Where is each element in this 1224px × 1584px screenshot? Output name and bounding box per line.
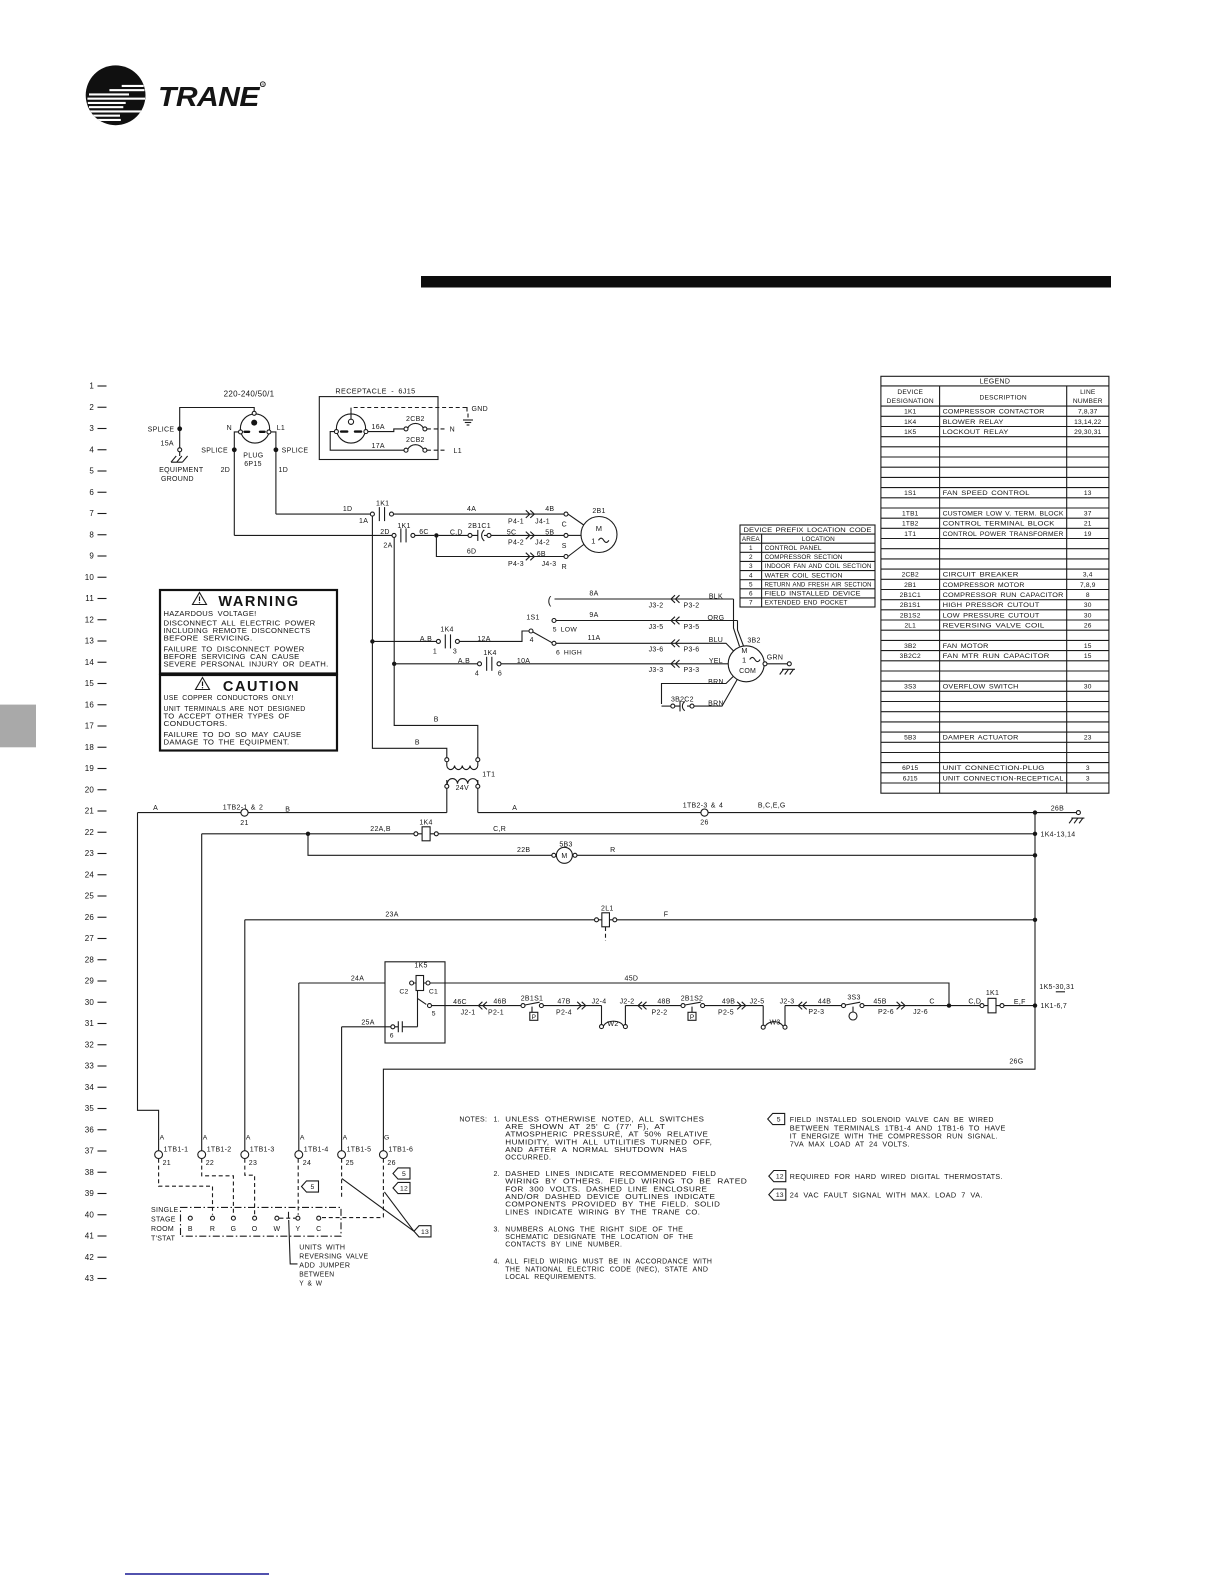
svg-text:J3-2: J3-2	[649, 602, 664, 609]
svg-text:NUMBERS ALONG THE RIGHT SIDE O: NUMBERS ALONG THE RIGHT SIDE OF THE	[505, 1226, 683, 1233]
svg-text:23: 23	[249, 1160, 257, 1167]
svg-text:OCCURRED.: OCCURRED.	[505, 1155, 551, 1162]
wire J2-2	[625, 1005, 681, 1007]
svg-text:3: 3	[453, 648, 457, 655]
svg-text:2D: 2D	[221, 467, 231, 474]
svg-text:C,D: C,D	[450, 530, 463, 537]
equipment ground terminal	[178, 448, 182, 452]
left rail line21 down	[138, 813, 159, 1151]
svg-text:TO ACCEPT OTHER TYPES OF: TO ACCEPT OTHER TYPES OF	[164, 714, 290, 721]
svg-text:1TB1-1: 1TB1-1	[164, 1147, 189, 1154]
terminal S	[564, 533, 568, 537]
wire 45B	[864, 1005, 980, 1007]
svg-text:GRN: GRN	[767, 655, 783, 662]
svg-text:5 LOW: 5 LOW	[553, 626, 578, 633]
svg-text:1.: 1.	[493, 1116, 499, 1123]
relay coil 1K5	[410, 981, 414, 985]
svg-text:ARE SHOWN AT 25' C (77' F), AT: ARE SHOWN AT 25' C (77' F), AT	[505, 1124, 665, 1131]
svg-text:6: 6	[498, 671, 502, 678]
terminal 1TB1-1	[155, 1151, 163, 1159]
svg-text:30: 30	[1084, 602, 1092, 609]
svg-text:A: A	[160, 1135, 165, 1142]
svg-text:AREA: AREA	[742, 536, 760, 543]
svg-text:13: 13	[85, 637, 95, 646]
svg-text:LOCATION: LOCATION	[802, 536, 835, 543]
svg-text:1TB1-3: 1TB1-3	[250, 1147, 275, 1154]
svg-text:UNIT TERMINALS ARE NOT DESIGNE: UNIT TERMINALS ARE NOT DESIGNED	[164, 706, 306, 713]
svg-text:FAN MTR RUN CAPACITOR: FAN MTR RUN CAPACITOR	[943, 653, 1050, 660]
svg-text:7: 7	[749, 600, 753, 607]
wire line21 left	[138, 812, 242, 814]
svg-text:3S3: 3S3	[847, 994, 860, 1001]
note flag 13	[769, 1189, 786, 1200]
svg-text:P2-3: P2-3	[808, 1009, 824, 1016]
svg-text:COM: COM	[739, 668, 756, 675]
svg-text:1K4: 1K4	[419, 820, 432, 827]
line number ruler 1-43	[85, 382, 107, 1284]
svg-text:J2-6: J2-6	[913, 1009, 928, 1016]
svg-text:23: 23	[85, 849, 95, 858]
svg-text:ORG: ORG	[707, 615, 724, 622]
svg-text:B: B	[434, 717, 439, 724]
connector J2-2/P2-2	[638, 1002, 642, 1010]
wire 2D line8	[234, 534, 392, 536]
dashed lead 1TB1-5	[341, 1159, 343, 1198]
svg-text:UNLESS OTHERWISE NOTED, ALL SW: UNLESS OTHERWISE NOTED, ALL SWITCHES	[505, 1116, 704, 1123]
svg-text:1K5-30,31: 1K5-30,31	[1039, 984, 1074, 991]
svg-text:1TB1-2: 1TB1-2	[207, 1147, 232, 1154]
svg-text:J2-3: J2-3	[780, 998, 795, 1005]
svg-text:16: 16	[85, 700, 95, 709]
svg-text:6 HIGH: 6 HIGH	[556, 649, 582, 656]
legend table	[881, 376, 1109, 793]
svg-text:COMPRESSOR MOTOR: COMPRESSOR MOTOR	[943, 582, 1025, 589]
svg-text:1K4: 1K4	[483, 650, 496, 657]
svg-text:6P15: 6P15	[902, 765, 918, 772]
wire BRN lower	[694, 679, 737, 706]
svg-text:15: 15	[1084, 653, 1092, 660]
svg-text:5: 5	[432, 1011, 436, 1018]
svg-text:ATMOSPHERIC PRESSURE, AT 50% R: ATMOSPHERIC PRESSURE, AT 50% RELATIVE	[505, 1132, 708, 1139]
terminal R	[564, 555, 568, 559]
svg-text:M: M	[561, 853, 567, 860]
svg-text:2B1C1: 2B1C1	[468, 523, 491, 530]
svg-text:P4-3: P4-3	[508, 561, 524, 568]
TRANE wordmark	[158, 81, 260, 112]
svg-text:BRN: BRN	[708, 679, 724, 686]
svg-text:6J15: 6J15	[903, 775, 918, 782]
svg-text:1K1: 1K1	[397, 523, 410, 530]
svg-text:BETWEEN: BETWEEN	[299, 1271, 334, 1278]
svg-text:4.: 4.	[493, 1259, 499, 1266]
t-stat terminal W	[275, 1216, 279, 1220]
svg-text:1K1: 1K1	[376, 501, 389, 508]
svg-text:8: 8	[89, 530, 94, 539]
right rail wire	[383, 813, 1035, 1151]
1K5 reset contact	[391, 1025, 395, 1029]
svg-text:13: 13	[421, 1229, 429, 1236]
svg-text:P: P	[690, 1014, 694, 1021]
svg-text:1TB1-6: 1TB1-6	[388, 1147, 413, 1154]
svg-text:27: 27	[85, 934, 95, 943]
svg-text:13: 13	[1084, 490, 1092, 497]
svg-text:2CB2: 2CB2	[406, 416, 425, 423]
svg-text:1K4: 1K4	[904, 419, 916, 426]
svg-text:J2-4: J2-4	[592, 998, 607, 1005]
svg-text:SINGLE: SINGLE	[151, 1207, 179, 1214]
svg-text:21: 21	[163, 1160, 171, 1167]
svg-text:B: B	[188, 1226, 193, 1233]
svg-text:5B: 5B	[545, 530, 554, 537]
svg-text:5B3: 5B3	[904, 735, 916, 742]
svg-text:J4-2: J4-2	[535, 540, 550, 547]
svg-text:CUSTOMER LOW V. TERM. BLOCK: CUSTOMER LOW V. TERM. BLOCK	[943, 510, 1064, 517]
flag 12 near 1TB1-6	[393, 1182, 410, 1193]
svg-text:2B1: 2B1	[592, 508, 605, 515]
svg-text:9: 9	[89, 552, 94, 561]
svg-text:J3-5: J3-5	[649, 624, 664, 631]
svg-text:20: 20	[85, 785, 95, 794]
svg-text:HUMIDITY, WITH ALL UTILITIES T: HUMIDITY, WITH ALL UTILITIES TURNED OFF,	[505, 1139, 712, 1146]
svg-text:CAUTION: CAUTION	[223, 679, 300, 695]
svg-text:P2-5: P2-5	[718, 1009, 734, 1016]
svg-text:24: 24	[303, 1160, 311, 1167]
svg-text:DEVICE: DEVICE	[897, 389, 923, 396]
svg-text:7VA MAX LOAD AT 24 VOLTS.: 7VA MAX LOAD AT 24 VOLTS.	[790, 1142, 910, 1149]
svg-text:A: A	[246, 1135, 251, 1142]
svg-text:Y: Y	[295, 1226, 300, 1233]
svg-text:1D: 1D	[279, 467, 289, 474]
svg-text:43: 43	[85, 1274, 95, 1283]
TRANE logo	[86, 65, 146, 125]
note flag 5	[768, 1113, 785, 1124]
svg-text:2B1S1: 2B1S1	[521, 996, 544, 1003]
relay coil 1K1	[980, 1004, 984, 1008]
svg-text:B,C,E,G: B,C,E,G	[758, 803, 786, 810]
svg-text:SEVERE PERSONAL INJURY OR DEAT: SEVERE PERSONAL INJURY OR DEATH.	[164, 662, 329, 669]
svg-text:CONTACTS BY LINE NUMBER.: CONTACTS BY LINE NUMBER.	[505, 1242, 622, 1249]
svg-text:INCLUDING REMOTE DISCONNECTS: INCLUDING REMOTE DISCONNECTS	[164, 628, 311, 635]
svg-text:30: 30	[1084, 612, 1092, 619]
svg-text:CIRCUIT BREAKER: CIRCUIT BREAKER	[943, 572, 1019, 579]
terminal 1TB2-1&2	[241, 809, 248, 816]
wire L-top	[180, 408, 255, 429]
svg-text:2.: 2.	[493, 1171, 499, 1178]
1S1 pivot and blade	[529, 629, 533, 633]
svg-text:BRN: BRN	[708, 700, 724, 707]
wire 8A BLK	[555, 598, 734, 600]
svg-text:41: 41	[85, 1232, 95, 1241]
svg-text:UNITS WITH: UNITS WITH	[299, 1244, 345, 1251]
svg-text:W3: W3	[769, 1019, 780, 1026]
svg-text:3B2: 3B2	[747, 638, 760, 645]
svg-text:7: 7	[89, 509, 94, 518]
connector J2-1/P2-1	[478, 1002, 482, 1010]
svg-text:16A: 16A	[372, 424, 385, 431]
svg-text:26: 26	[1084, 623, 1092, 630]
svg-text:1TB1-5: 1TB1-5	[347, 1147, 372, 1154]
terminal C	[564, 512, 568, 516]
svg-text:6: 6	[390, 1032, 394, 1039]
svg-text:L1: L1	[277, 425, 285, 432]
svg-text:42: 42	[85, 1253, 95, 1262]
svg-text:C: C	[316, 1226, 321, 1233]
breaker 2CB2 upper	[404, 427, 408, 431]
wire 1D line7	[276, 513, 371, 515]
t-stat terminal B	[188, 1216, 192, 1220]
svg-text:ROOM: ROOM	[151, 1226, 174, 1233]
wire 5C	[491, 534, 564, 536]
svg-text:4: 4	[89, 445, 94, 454]
svg-text:45D: 45D	[625, 975, 639, 982]
svg-text:3: 3	[749, 563, 753, 570]
svg-text:FAILURE TO DISCONNECT POWER: FAILURE TO DISCONNECT POWER	[164, 647, 305, 654]
svg-text:44B: 44B	[818, 998, 831, 1005]
svg-text:SPLICE: SPLICE	[201, 448, 228, 455]
plug 6P15	[240, 414, 269, 443]
svg-text:30: 30	[85, 998, 95, 1007]
footer blue line	[125, 1573, 269, 1575]
svg-text:P4-1: P4-1	[508, 518, 524, 525]
t-stat terminal R	[211, 1216, 215, 1220]
svg-text:2B1S1: 2B1S1	[900, 602, 921, 609]
svg-text:F: F	[664, 912, 669, 919]
contact 1K1 line8	[392, 533, 396, 537]
terminal 1TB1-3	[241, 1151, 249, 1159]
t-stat terminal O	[253, 1216, 257, 1220]
svg-text:12: 12	[400, 1186, 408, 1193]
svg-text:P3-6: P3-6	[684, 646, 700, 653]
contact 1K4 line14	[478, 662, 482, 666]
svg-text:1A: 1A	[359, 518, 368, 525]
svg-text:R: R	[261, 83, 264, 87]
svg-text:FAILURE TO DO SO MAY CAUSE: FAILURE TO DO SO MAY CAUSE	[164, 732, 302, 739]
svg-text:N: N	[227, 425, 232, 432]
svg-text:P3-3: P3-3	[684, 667, 700, 674]
svg-text:CONDUCTORS.: CONDUCTORS.	[164, 721, 228, 728]
svg-text:FAN SPEED CONTROL: FAN SPEED CONTROL	[943, 490, 1030, 497]
svg-text:B: B	[285, 806, 290, 813]
svg-text:COMPRESSOR SECTION: COMPRESSOR SECTION	[765, 554, 843, 561]
svg-text:RETURN AND FRESH AIR SECTION: RETURN AND FRESH AIR SECTION	[765, 581, 872, 588]
svg-text:OVERFLOW SWITCH: OVERFLOW SWITCH	[943, 684, 1019, 691]
svg-text:DISCONNECT ALL ELECTRIC POWER: DISCONNECT ALL ELECTRIC POWER	[164, 620, 316, 627]
svg-text:C: C	[929, 998, 934, 1005]
svg-text:17A: 17A	[372, 443, 385, 450]
svg-text:(: (	[548, 595, 552, 607]
svg-text:10A: 10A	[517, 658, 530, 665]
splice dot left	[177, 426, 182, 431]
svg-text:J3-3: J3-3	[649, 667, 664, 674]
wire 46C	[432, 1005, 522, 1007]
dashed lead 1TB1-3 to O	[245, 1159, 255, 1215]
svg-text:2B1: 2B1	[904, 582, 916, 589]
thermostat box	[181, 1207, 342, 1236]
svg-text:3,4: 3,4	[1083, 572, 1093, 579]
svg-text:5B3: 5B3	[559, 841, 572, 848]
svg-text:24: 24	[85, 870, 95, 879]
wire line26 23A	[245, 919, 595, 921]
wire 16A	[368, 429, 404, 432]
svg-text:FOR 300 VOLTS. DASHED LINE ENC: FOR 300 VOLTS. DASHED LINE ENCLOSURE	[505, 1186, 707, 1193]
svg-text:REVERSING VALVE: REVERSING VALVE	[299, 1253, 368, 1260]
svg-text:G: G	[231, 1226, 237, 1233]
svg-text:1TB2-3 & 4: 1TB2-3 & 4	[683, 803, 723, 810]
svg-text:37: 37	[1084, 510, 1092, 517]
svg-text:HAZARDOUS VOLTAGE!: HAZARDOUS VOLTAGE!	[164, 611, 257, 618]
terminal 1TB2-3&4	[701, 809, 708, 816]
svg-text:M: M	[596, 524, 603, 533]
svg-text:5: 5	[402, 1171, 406, 1178]
svg-text:5: 5	[777, 1117, 781, 1124]
svg-text:LOCAL REQUIREMENTS.: LOCAL REQUIREMENTS.	[505, 1274, 596, 1281]
svg-text:12: 12	[776, 1174, 784, 1181]
svg-text:1: 1	[433, 648, 437, 655]
svg-text:STAGE: STAGE	[151, 1216, 176, 1223]
svg-text:6C: 6C	[419, 529, 429, 536]
svg-text:34: 34	[85, 1083, 95, 1092]
svg-text:2L1: 2L1	[601, 906, 614, 913]
svg-text:49B: 49B	[722, 999, 735, 1006]
svg-text:FIELD INSTALLED SOLENOID VALVE: FIELD INSTALLED SOLENOID VALVE CAN BE WI…	[790, 1117, 994, 1124]
svg-text:39: 39	[85, 1189, 95, 1198]
svg-text:YEL: YEL	[709, 658, 723, 665]
flag 5 near 1TB1-6	[393, 1168, 410, 1179]
svg-text:40: 40	[85, 1210, 95, 1219]
svg-text:S: S	[562, 543, 567, 550]
svg-text:CONTROL PANEL: CONTROL PANEL	[765, 545, 822, 552]
svg-text:LOW PRESSURE CUTOUT: LOW PRESSURE CUTOUT	[943, 612, 1040, 619]
svg-text:15: 15	[85, 679, 95, 688]
svg-text:2B1S2: 2B1S2	[681, 996, 704, 1003]
svg-text:COMPRESSOR RUN CAPACITOR: COMPRESSOR RUN CAPACITOR	[943, 592, 1064, 599]
svg-text:24A: 24A	[351, 976, 364, 983]
svg-text:INDOOR FAN AND COIL SECTION: INDOOR FAN AND COIL SECTION	[765, 563, 872, 570]
svg-text:P2-2: P2-2	[652, 1009, 668, 1016]
1T1 secondary drops	[446, 788, 448, 812]
wire 15A	[179, 431, 181, 448]
svg-text:12: 12	[85, 615, 95, 624]
svg-text:25: 25	[85, 892, 95, 901]
svg-text:26: 26	[387, 1160, 395, 1167]
pressure switch 2B1S2	[681, 1004, 685, 1008]
svg-text:ADD JUMPER: ADD JUMPER	[299, 1262, 350, 1269]
equipment ground symbol	[179, 452, 181, 456]
wire 1D from plug L1	[271, 432, 276, 448]
svg-text:13,14,22: 13,14,22	[1074, 419, 1101, 426]
dashed lead 1TB1-4 to Y	[297, 1159, 299, 1215]
svg-text:WIRING BY OTHERS. FIELD WIRING: WIRING BY OTHERS. FIELD WIRING TO BE RAT…	[505, 1179, 747, 1186]
rail 1TB1-5	[341, 1027, 343, 1151]
svg-text:14: 14	[85, 658, 95, 667]
svg-text:26G: 26G	[1009, 1059, 1023, 1066]
svg-text:P2-6: P2-6	[878, 1009, 894, 1016]
svg-text:15A: 15A	[161, 440, 174, 447]
svg-text:LEGEND: LEGEND	[980, 378, 1011, 385]
svg-text:AND AFTER A NORMAL SHUTDOWN HA: AND AFTER A NORMAL SHUTDOWN HAS	[505, 1147, 687, 1154]
svg-text:2: 2	[89, 403, 94, 412]
svg-text:C1: C1	[429, 989, 438, 996]
svg-text:11: 11	[85, 594, 94, 603]
flag 5 near 1TB1-4	[302, 1181, 319, 1192]
svg-text:SPLICE: SPLICE	[282, 448, 309, 455]
1K5 enclosure box	[385, 962, 445, 1043]
svg-text:UNIT CONNECTION-RECEPTICAL: UNIT CONNECTION-RECEPTICAL	[943, 775, 1064, 782]
svg-text:EQUIPMENT: EQUIPMENT	[159, 467, 204, 474]
svg-text:J3-6: J3-6	[649, 646, 664, 653]
svg-text:2CB2: 2CB2	[902, 572, 919, 579]
svg-text:1K1: 1K1	[986, 990, 999, 997]
breaker 2CB2 lower	[404, 448, 408, 452]
svg-text:P3-2: P3-2	[684, 602, 700, 609]
svg-text:P2-4: P2-4	[556, 1009, 572, 1016]
damper actuator 5B3	[552, 853, 556, 857]
svg-text:4: 4	[475, 671, 479, 678]
wire 6C	[415, 534, 434, 536]
svg-text:6: 6	[89, 488, 94, 497]
wire B to 1T1 left	[372, 516, 446, 758]
terminal 1TB1-6	[380, 1151, 388, 1159]
wire 47B	[543, 1005, 601, 1007]
wire BRN upper	[662, 676, 734, 704]
svg-text:C: C	[562, 522, 567, 529]
svg-text:R: R	[610, 847, 615, 854]
svg-text:3B2C2: 3B2C2	[900, 653, 921, 660]
svg-text:ALL FIELD WIRING MUST BE IN AC: ALL FIELD WIRING MUST BE IN ACCORDANCE W…	[505, 1259, 712, 1266]
connector P2-5/J2-5	[737, 1002, 741, 1010]
jumper note leader	[289, 1220, 298, 1264]
svg-text:Y & W: Y & W	[299, 1280, 322, 1287]
svg-text:2A: 2A	[383, 543, 392, 550]
svg-text:19: 19	[85, 764, 95, 773]
svg-text:13: 13	[776, 1192, 784, 1199]
svg-text:CONTROL POWER TRANSFORMER: CONTROL POWER TRANSFORMER	[943, 531, 1064, 538]
svg-text:1K4-13,14: 1K4-13,14	[1041, 832, 1076, 839]
svg-text:O: O	[252, 1226, 258, 1233]
svg-text:28: 28	[85, 955, 95, 964]
svg-text:5: 5	[311, 1184, 315, 1191]
receptacle 6J15 box	[319, 397, 438, 460]
svg-text:1: 1	[591, 536, 595, 545]
compressor motor 2B1	[581, 517, 617, 553]
wire J2-3	[785, 1005, 842, 1007]
svg-text:1TB2-1 & 2: 1TB2-1 & 2	[223, 804, 263, 811]
svg-text:4: 4	[530, 637, 534, 644]
svg-text:9A: 9A	[589, 612, 598, 619]
svg-text:DESIGNATION: DESIGNATION	[887, 398, 934, 405]
svg-text:1K4: 1K4	[440, 627, 453, 634]
overflow switch 3S3	[842, 1004, 846, 1008]
flag 13 with arrows	[342, 1179, 414, 1232]
connector P2-4/J2-4	[577, 1002, 581, 1010]
svg-text:EXTENDED END POCKET: EXTENDED END POCKET	[765, 600, 848, 607]
terminal 1TB1-5	[338, 1151, 346, 1159]
svg-text:6: 6	[749, 591, 753, 598]
wire 4A	[394, 513, 564, 515]
fan motor 3B2	[728, 646, 764, 682]
svg-text:5: 5	[89, 467, 94, 476]
t-stat terminal C	[317, 1216, 321, 1220]
svg-text:1: 1	[749, 545, 753, 552]
wire 9A ORG	[556, 620, 738, 622]
svg-text:2L1: 2L1	[904, 623, 916, 630]
wire 6D line9	[436, 535, 563, 556]
svg-text:A,B: A,B	[420, 636, 432, 643]
left margin tab	[0, 705, 36, 748]
svg-text:LINES INDICATE WIRING BY THE T: LINES INDICATE WIRING BY THE TRANE CO.	[505, 1209, 700, 1216]
svg-text:E,F: E,F	[1014, 999, 1026, 1006]
svg-text:1K5: 1K5	[414, 963, 427, 970]
